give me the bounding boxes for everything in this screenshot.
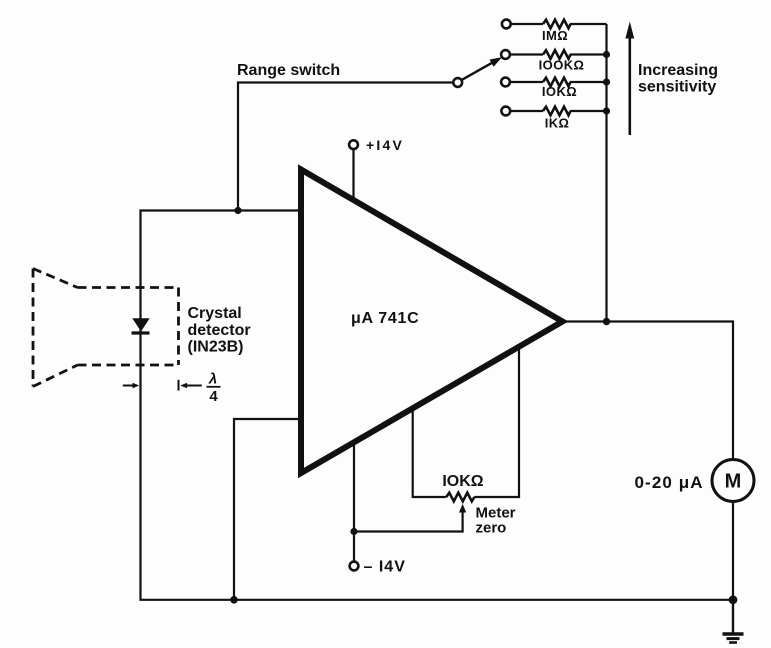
svg-text:(IN23B): (IN23B)	[188, 339, 244, 356]
svg-text:IOOKΩ: IOOKΩ	[539, 58, 585, 73]
svg-text:μA 741C: μA 741C	[351, 310, 419, 327]
svg-text:λ: λ	[208, 371, 217, 388]
svg-text:zero: zero	[476, 520, 507, 537]
svg-text:Increasing: Increasing	[638, 62, 718, 79]
svg-text:detector: detector	[188, 322, 251, 339]
svg-text:IMΩ: IMΩ	[542, 28, 568, 43]
svg-text:4: 4	[209, 388, 218, 405]
svg-text:IKΩ: IKΩ	[545, 115, 570, 130]
svg-text:+I4V: +I4V	[366, 137, 404, 153]
svg-text:– I4V: – I4V	[364, 559, 406, 576]
svg-text:M: M	[725, 471, 742, 493]
svg-text:0-20 μA: 0-20 μA	[635, 473, 704, 492]
svg-text:IOKΩ: IOKΩ	[442, 473, 483, 490]
svg-text:Crystal: Crystal	[188, 305, 242, 322]
svg-text:IOKΩ: IOKΩ	[542, 84, 577, 99]
svg-text:Range switch: Range switch	[237, 62, 340, 79]
svg-text:sensitivity: sensitivity	[638, 79, 716, 96]
